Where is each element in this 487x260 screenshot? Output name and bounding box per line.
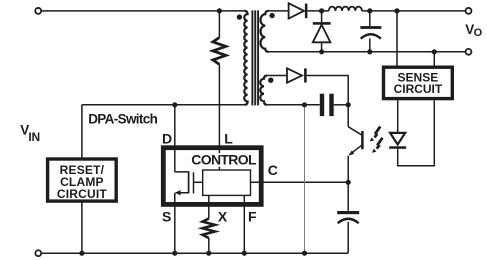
svg-text:S: S (162, 208, 171, 224)
svg-text:O: O (474, 27, 483, 39)
svg-text:D: D (162, 130, 172, 146)
svg-text:F: F (248, 208, 257, 224)
svg-text:L: L (224, 130, 233, 146)
svg-text:X: X (218, 208, 228, 224)
svg-text:IN: IN (28, 130, 40, 144)
svg-text:CIRCUIT: CIRCUIT (57, 187, 108, 201)
svg-text:DPA-Switch: DPA-Switch (88, 112, 157, 127)
svg-text:CONTROL: CONTROL (191, 151, 257, 167)
svg-text:C: C (268, 162, 278, 178)
svg-text:CIRCUIT: CIRCUIT (394, 82, 443, 96)
